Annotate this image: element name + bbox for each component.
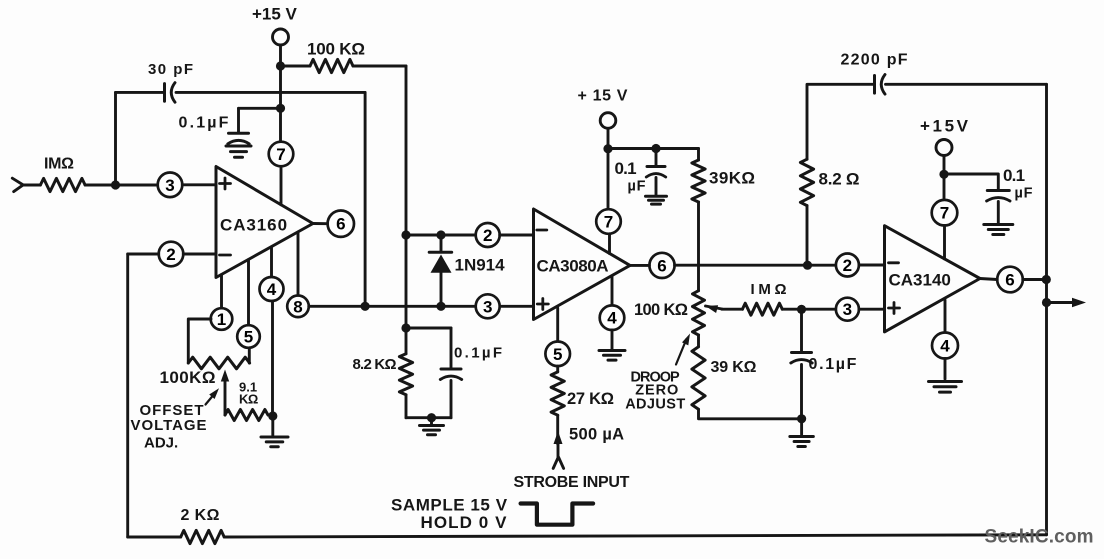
svg-text:2 KΩ: 2 KΩ	[181, 507, 220, 524]
wire 8.2ohm to pin2 net	[806, 206, 809, 266]
junction 30pF net / pin8 wire	[361, 302, 370, 311]
wire 0.1uF top from junction	[406, 327, 451, 330]
label +15V (CA3140)	[920, 117, 971, 136]
junction output node	[1042, 298, 1051, 307]
wire pin3 to op-amp	[182, 183, 216, 186]
wire pin2 node down to 8.2K node	[405, 235, 408, 328]
pin 4 CA3080A	[600, 305, 625, 330]
junction droop ground node	[797, 414, 806, 423]
wire pin5 from op-amp	[247, 260, 250, 326]
ground below droop network	[790, 419, 814, 447]
label ADJUST	[625, 396, 685, 412]
wire 2200pF left segment	[807, 84, 874, 159]
svg-text:HOLD 0 V: HOLD 0 V	[421, 513, 508, 532]
svg-text:8: 8	[293, 297, 302, 316]
wire pot right terminal to pin5	[248, 348, 251, 363]
wire input node up to 30pF	[114, 92, 117, 185]
minus sign CA3140	[889, 261, 899, 264]
wire pin3 into CA3140	[859, 308, 885, 311]
wire 30pF right segment	[176, 91, 365, 94]
svg-text:7: 7	[276, 145, 285, 164]
resistor 1 M-ohm (input)	[40, 178, 85, 191]
wire 0.1uF bottom	[450, 381, 453, 418]
svg-text:39KΩ: 39KΩ	[709, 169, 755, 188]
wire pin7 to op-amp	[608, 234, 611, 254]
wire 39K to droop pot	[697, 202, 700, 291]
svg-text:2: 2	[843, 256, 852, 275]
svg-text:7: 7	[604, 213, 613, 232]
pin 6 CA3080A	[649, 253, 674, 278]
pin 3 CA3160	[158, 173, 183, 198]
wire bottom feedback right segment	[224, 535, 1046, 537]
svg-text:2: 2	[483, 226, 492, 245]
pin 8 CA3160	[287, 296, 309, 318]
pin 6 CA3140	[997, 267, 1023, 293]
pin 7 CA3160	[269, 142, 294, 167]
wire pin7 CA3080A up	[607, 149, 610, 210]
svg-text:6: 6	[657, 256, 666, 275]
resistor 8.2 K-ohm	[399, 354, 412, 395]
label OFFSET	[140, 402, 205, 419]
label 500 uA	[569, 426, 624, 444]
wire apex to pin6	[313, 222, 328, 225]
junction +15V CA3080A	[603, 144, 612, 153]
wire 30pF left segment	[116, 91, 165, 94]
wire 0.1uF bypass tap	[239, 107, 281, 110]
svg-text:2: 2	[166, 245, 175, 264]
svg-text:3: 3	[483, 297, 492, 316]
junction 100K line / pin2 wire	[401, 230, 410, 239]
junction +15V / 100K resistor	[276, 61, 285, 70]
wire down to 0.1uF cap	[450, 328, 453, 369]
plus sign CA3080A	[537, 299, 548, 310]
minus sign CA3160	[220, 254, 231, 257]
resistor 2 K-ohm (feedback)	[181, 530, 225, 543]
capacitor 0.1uF (CA3140 bypass)	[987, 191, 1010, 202]
wire pin2 to op-amp	[183, 253, 216, 256]
diode 1N914	[429, 252, 452, 306]
junction diode bottom / pin3 wire	[436, 302, 445, 311]
label 9.1 (two-line)	[239, 379, 257, 394]
wire droop pot to lower 39K	[697, 335, 700, 347]
pin 2 CA3080A	[476, 223, 500, 247]
label uF (CA3140 bypass)	[1015, 186, 1034, 202]
wire strobe terminal	[557, 444, 560, 458]
ground below pin4 CA3160	[261, 416, 288, 447]
wire junction to pin7 CA3140	[943, 174, 946, 200]
label CA3160	[220, 215, 288, 234]
svg-text:0.1µF: 0.1µF	[179, 115, 231, 132]
capacitor 2200 pF	[875, 75, 886, 95]
svg-text:3: 3	[843, 300, 852, 319]
pin 3 CA3140	[836, 298, 859, 321]
wire down to 0.1uF bypass cap	[237, 108, 240, 133]
junction 1M / 0.1uF hold cap	[797, 305, 806, 314]
wire down from 100K corner to CA3080A pin2 net	[405, 66, 408, 235]
label 1M Ohm (input)	[44, 156, 74, 173]
svg-text:500 µA: 500 µA	[569, 426, 624, 444]
label +15 V (CA3160 supply)	[252, 5, 298, 24]
wire 27K to strobe arrow	[556, 415, 559, 444]
label STROBE INPUT	[514, 474, 630, 491]
svg-text:100 KΩ: 100 KΩ	[307, 40, 365, 59]
svg-text:SeekIC.com: SeekIC.com	[985, 527, 1094, 548]
wire apex to pin6 CA3140	[980, 279, 997, 280]
svg-text:0.1: 0.1	[615, 159, 637, 178]
wire pin4 from op-amp	[270, 247, 273, 277]
wire +15V rail corner down to 39K	[697, 149, 700, 161]
wire +15V CA3140 down	[943, 156, 946, 175]
label SAMPLE 15 V	[391, 495, 508, 514]
ground below 8.2K/0.1uF	[420, 418, 444, 435]
svg-text:5: 5	[553, 345, 562, 364]
capacitor 0.1uF (CA3080A input filter)	[440, 369, 461, 380]
label 0.1uF (hold)	[809, 356, 859, 373]
svg-text:39 KΩ: 39 KΩ	[711, 359, 757, 376]
power +15V terminal (CA3160 supply)	[273, 29, 289, 45]
wire pin2 to CA3080A	[500, 234, 534, 237]
droop pot wiper arrow	[706, 305, 723, 313]
svg-text:4: 4	[267, 280, 277, 299]
svg-text:27 KΩ: 27 KΩ	[567, 390, 614, 408]
label arrow droop adjust	[676, 334, 690, 365]
svg-text:0.1µF: 0.1µF	[809, 356, 859, 373]
label 0.1 (CA3140 bypass)	[1003, 166, 1025, 185]
wire +15V to junction	[607, 128, 610, 148]
wire pin8 to CA3080A pin3	[309, 305, 476, 308]
pin 3 CA3080A	[476, 294, 500, 318]
svg-text:SAMPLE 15 V: SAMPLE 15 V	[391, 495, 508, 514]
wire +15V rail right	[608, 147, 699, 150]
label ADJ.	[144, 434, 178, 451]
wire pin4 CA3080A from op-amp	[611, 276, 614, 305]
svg-text:8.2 KΩ: 8.2 KΩ	[353, 356, 397, 373]
capacitor 0.1uF (CA3080A bypass)	[646, 167, 665, 178]
svg-text:2200 pF: 2200 pF	[841, 52, 909, 69]
junction +15V CA3140	[939, 170, 948, 179]
resistor 9.1 K-ohm	[225, 410, 268, 421]
label + 15 V (CA3080A)	[578, 88, 629, 105]
wire pin2 CA3080A	[406, 234, 476, 237]
junction bypass cap CA3080A	[651, 144, 660, 153]
output arrow	[1047, 298, 1087, 307]
svg-text:6: 6	[1005, 271, 1014, 290]
wire 8.2K to 0.1uF bottom	[406, 416, 451, 419]
wire pin1 from op-amp	[220, 275, 223, 309]
ground below CA3140 bypass	[984, 225, 1013, 235]
wire +15V CA3140 right	[944, 174, 998, 189]
wire bypass cap to ground	[655, 178, 658, 195]
wire pot left terminal	[188, 319, 211, 363]
label VOLTAGE	[131, 417, 208, 434]
wire pin4 CA3140 from op-amp	[944, 300, 947, 333]
junction pin6 / feedback line	[1042, 275, 1051, 284]
wire 1M to pin3	[85, 184, 158, 187]
op-amp U3 CA3140 triangle	[885, 226, 981, 332]
junction 8.2K / 0.1uF top	[401, 323, 410, 332]
wire 100K from +15V node	[285, 65, 310, 68]
wire hold cap top	[800, 309, 803, 351]
svg-text:1N914: 1N914	[455, 255, 506, 274]
capacitor 30 pF	[165, 83, 176, 103]
wire pin3 into CA3080A	[500, 305, 534, 308]
pin 4 CA3160	[260, 277, 284, 301]
label CA3080A	[537, 257, 609, 276]
svg-text:CA3140: CA3140	[889, 271, 951, 290]
pin 6 CA3160	[328, 211, 354, 237]
label 2200 pF	[841, 52, 909, 69]
wire pin2 into CA3140	[859, 264, 885, 267]
resistor 39 K-ohm (upper)	[692, 160, 705, 202]
wire pin4 CA3140 to ground	[944, 359, 947, 380]
label 8.2 Ohm	[819, 169, 860, 188]
svg-text:100KΩ: 100KΩ	[160, 368, 216, 387]
pin 1 CA3160	[211, 308, 233, 330]
wire hold cap bottom	[800, 365, 803, 419]
label 1N914	[455, 255, 506, 274]
wire pin5 CA3080A from op-amp	[556, 308, 559, 342]
pin 5 CA3080A	[545, 342, 570, 367]
label 30 pF	[148, 61, 194, 78]
wire pin4 down to ground node	[271, 301, 274, 416]
potentiometer 100K offset (element)	[188, 357, 249, 369]
svg-text:8.2 Ω: 8.2 Ω	[819, 169, 860, 188]
wire lower 39K to ground node	[699, 409, 802, 419]
svg-text:6: 6	[336, 215, 345, 234]
wire down to bypass cap	[655, 149, 658, 167]
wire feedback vertical (left)	[126, 254, 129, 537]
svg-text:3: 3	[165, 176, 174, 195]
label 39KOhm (upper)	[709, 169, 755, 188]
watermark SeekIC.com	[985, 527, 1094, 548]
wire 2200pF right segment	[886, 83, 1047, 86]
label uF (CA3080A bypass)	[628, 178, 647, 194]
power +15V terminal (CA3140)	[936, 140, 952, 156]
capacitor 0.1uF (hold)	[791, 353, 812, 364]
label HOLD 0V	[421, 513, 508, 532]
wire pin8 from op-amp	[297, 232, 300, 296]
svg-text:4: 4	[940, 337, 950, 356]
svg-text:KΩ: KΩ	[239, 391, 258, 406]
plus sign CA3140	[889, 303, 900, 314]
pin 5 CA3160	[237, 325, 260, 348]
svg-text:+15V: +15V	[920, 117, 971, 136]
wire +15V down to pin7 node	[279, 45, 282, 142]
wire 100K to corner	[353, 65, 406, 68]
potentiometer 100K droop (element)	[693, 291, 705, 335]
resistor 1 M-ohm (droop)	[742, 303, 782, 315]
label KOhm (9.1K)	[239, 391, 258, 406]
junction +15V / 0.1uF bypass	[276, 104, 285, 113]
pin 2 CA3140	[836, 254, 859, 277]
wire 30pF net down to pin8 wire	[364, 92, 367, 306]
svg-text:5: 5	[244, 328, 253, 347]
wire pin4 to ground	[611, 330, 614, 349]
label 100 KOhm (droop pot)	[634, 301, 688, 319]
junction diode top / pin2 wire	[436, 230, 445, 239]
label 2 KOhm	[181, 507, 220, 524]
label 0.1 (CA3080A bypass)	[615, 159, 637, 178]
minus sign CA3080A	[537, 229, 547, 232]
capacitor 0.1uF (CA3160 bypass)	[228, 133, 249, 144]
svg-text:IMΩ: IMΩ	[751, 281, 791, 298]
label ZERO	[635, 382, 679, 398]
svg-text:ADJUST: ADJUST	[625, 396, 685, 412]
pin 4 CA3140	[932, 333, 958, 359]
label DROOP	[631, 369, 681, 385]
label CA3140	[889, 271, 951, 290]
junction bottom / ground	[427, 413, 436, 422]
plus sign CA3160	[220, 178, 231, 189]
wire pin5 to 27K	[556, 366, 559, 372]
svg-text:STROBE INPUT: STROBE INPUT	[514, 474, 630, 491]
junction input node / 30pF leg	[111, 180, 120, 189]
svg-text:4: 4	[607, 309, 617, 328]
svg-text:30 pF: 30 pF	[148, 61, 194, 78]
label 0.1uF (CA3160 bypass)	[179, 115, 231, 132]
svg-text:VOLTAGE: VOLTAGE	[131, 417, 208, 434]
strobe terminal chevron	[553, 457, 563, 469]
wire 1M to pin3 CA3140	[782, 308, 836, 311]
pin 2 CA3160	[159, 242, 184, 267]
pin 7 CA3080A	[596, 209, 621, 234]
op-amp U1 CA3160 triangle	[216, 167, 313, 278]
resistor 100 K-ohm	[310, 59, 353, 72]
svg-text:CA3080A: CA3080A	[537, 257, 609, 276]
label 1M Ohm (droop)	[751, 281, 791, 298]
svg-text:CA3160: CA3160	[220, 215, 288, 234]
svg-text:ADJ.: ADJ.	[144, 434, 178, 451]
svg-text:µF: µF	[1015, 186, 1034, 202]
wire pin6 CA3080A to CA3140 pin2	[675, 264, 837, 267]
svg-text:1: 1	[217, 310, 226, 329]
input terminal chevron	[12, 178, 23, 191]
svg-text:IMΩ: IMΩ	[44, 156, 74, 173]
wire 8.2K bottom to ground wire	[405, 395, 408, 418]
ground below CA3160 bypass cap	[226, 146, 251, 157]
ground below CA3080A bypass	[646, 196, 667, 204]
junction 9.1K / pin4 / ground	[268, 411, 277, 420]
wire input to 1M resistor	[23, 184, 40, 187]
label 100 KOhm	[307, 40, 365, 59]
wire diode top	[440, 235, 443, 252]
resistor 39 K-ohm (lower)	[692, 347, 705, 410]
strobe current arrow 500uA	[554, 431, 563, 444]
label 0.1uF (filter)	[454, 344, 504, 361]
label 39 KOhm (lower)	[711, 359, 757, 376]
wire wiper to 1M	[722, 308, 742, 311]
wire CA3140 bypass to ground	[997, 202, 1000, 223]
resistor 8.2 ohm	[800, 159, 813, 205]
label 100KOhm (offset pot)	[160, 368, 216, 387]
wire apex to pin6 CA3080A	[630, 264, 649, 267]
wire output feedback vertical	[1045, 84, 1048, 535]
wire bottom feedback left segment	[128, 536, 181, 539]
wire down to 8.2K resistor	[405, 328, 408, 354]
svg-text:µF: µF	[628, 178, 647, 194]
label 27 KOhm	[567, 390, 614, 408]
op-amp U2 CA3080A triangle	[534, 209, 631, 320]
svg-text:+ 15 V: + 15 V	[578, 88, 629, 105]
wire pin7 CA3140 to op-amp	[943, 226, 946, 259]
label 8.2 KOhm	[353, 356, 397, 373]
resistor 27 K-ohm	[551, 372, 564, 415]
wire pin2 left to feedback line	[128, 253, 159, 256]
svg-text:7: 7	[940, 204, 949, 223]
pin 7 CA3140	[932, 200, 958, 226]
svg-text:0.1: 0.1	[1003, 166, 1025, 185]
wire pin6 to output node	[1023, 278, 1042, 281]
wire pin7 to op-amp top edge	[280, 166, 283, 204]
svg-text:+15 V: +15 V	[252, 5, 298, 24]
strobe waveform pulse	[521, 504, 594, 525]
pot wiper arrow (offset)	[221, 370, 229, 416]
power +15V terminal (CA3080A)	[600, 113, 616, 129]
junction 8.2ohm / CA3140 pin2 wire	[803, 261, 812, 270]
ground below pin4 CA3080A	[599, 351, 625, 361]
svg-text:0.1µF: 0.1µF	[454, 344, 504, 361]
svg-text:100 KΩ: 100 KΩ	[634, 301, 688, 319]
ground below pin4 CA3140	[929, 382, 962, 393]
label arrow offset adjust	[206, 388, 220, 404]
